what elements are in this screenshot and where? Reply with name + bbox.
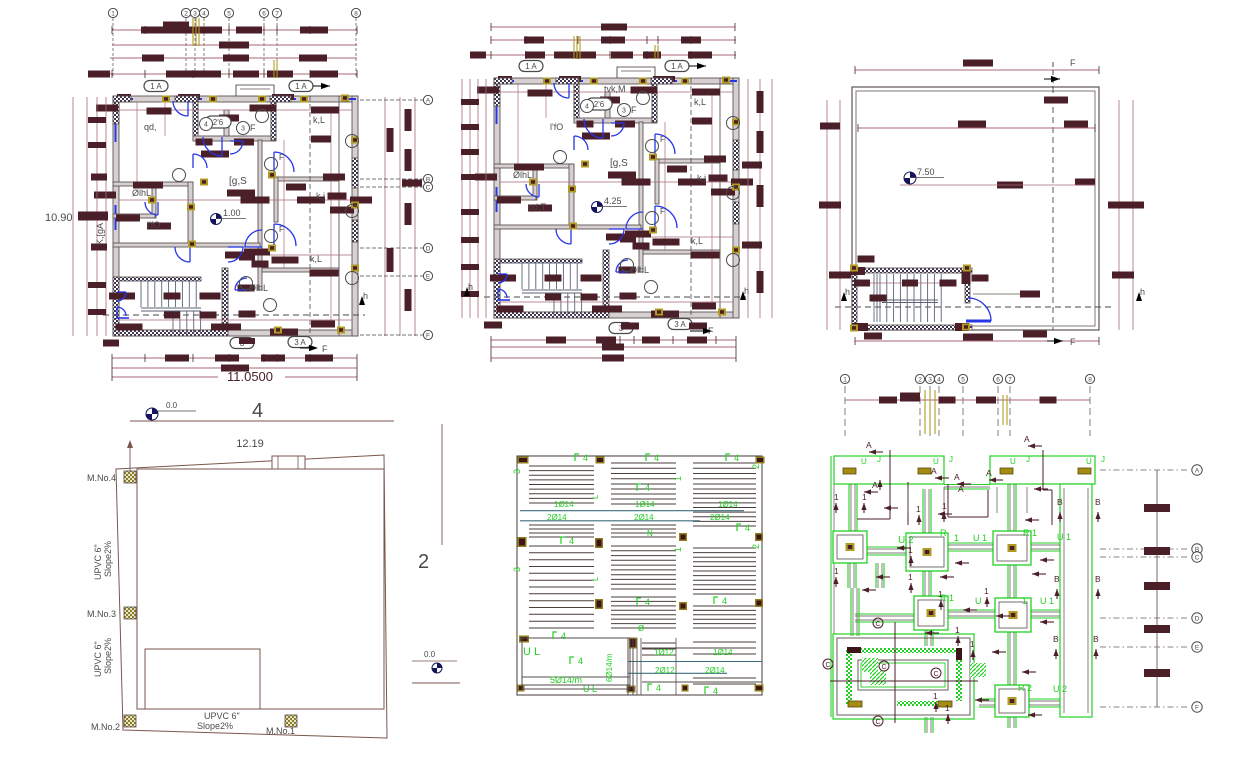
svg-text:k,L: k,L	[691, 236, 703, 246]
svg-text:1: 1	[942, 501, 947, 511]
svg-text:tvk,M: tvk,M	[604, 84, 626, 94]
svg-text:2Ø14: 2Ø14	[705, 666, 725, 675]
svg-text:M.No.1: M.No.1	[266, 726, 295, 736]
ground floor plan (top-left) grid bubbles and dimensions	[108, 8, 117, 17]
svg-text:U 2: U 2	[1053, 684, 1067, 694]
svg-text:4: 4	[654, 453, 659, 463]
svg-text:0.0: 0.0	[424, 650, 436, 659]
svg-text:B: B	[1095, 574, 1101, 584]
svg-text:U: U	[933, 457, 939, 466]
svg-text:3: 3	[512, 567, 522, 572]
svg-text:2: 2	[751, 464, 761, 469]
svg-text:8: 8	[1088, 376, 1092, 383]
svg-text:k,j: k,j	[697, 173, 706, 183]
svg-text:F: F	[279, 153, 284, 162]
svg-text:1: 1	[673, 547, 683, 552]
svg-text:4.25: 4.25	[604, 196, 622, 206]
svg-text:L: L	[591, 494, 600, 499]
svg-text:3 A: 3 A	[294, 338, 306, 347]
svg-text:M.No.4: M.No.4	[87, 473, 116, 483]
svg-text:UPVC 6": UPVC 6"	[93, 641, 103, 677]
svg-text:5: 5	[227, 10, 231, 17]
roof plan (top-right)	[852, 87, 1099, 330]
svg-text:1Ø14: 1Ø14	[713, 648, 733, 657]
svg-text:A: A	[954, 472, 960, 482]
svg-text:6Ø14/m: 6Ø14/m	[605, 653, 614, 682]
svg-text:1.00: 1.00	[223, 208, 241, 218]
svg-text:7: 7	[1008, 376, 1012, 383]
svg-text:A: A	[872, 480, 878, 490]
svg-text:0.0: 0.0	[166, 401, 178, 410]
svg-text:K,[gA: K,[gA	[95, 223, 105, 245]
svg-text:1: 1	[945, 703, 950, 713]
svg-text:5Ø14/m: 5Ø14/m	[550, 675, 582, 685]
svg-text:C: C	[426, 184, 431, 191]
svg-text:2: 2	[918, 376, 922, 383]
svg-text:2'6: 2'6	[213, 118, 224, 127]
svg-text:4: 4	[656, 683, 661, 693]
svg-text:1: 1	[955, 625, 960, 635]
svg-text:1: 1	[938, 589, 943, 599]
svg-text:4: 4	[645, 483, 650, 493]
svg-text:R 1: R 1	[1023, 528, 1037, 538]
svg-text:h: h	[744, 286, 749, 296]
svg-text:4: 4	[585, 104, 589, 111]
svg-text:B: B	[1057, 497, 1063, 507]
svg-text:4: 4	[583, 453, 588, 463]
svg-text:B: B	[1053, 634, 1059, 644]
svg-text:qd,: qd,	[144, 122, 157, 132]
svg-text:1: 1	[933, 691, 938, 701]
svg-text:4: 4	[713, 686, 718, 696]
svg-text:h: h	[845, 287, 850, 297]
svg-text:F: F	[426, 332, 430, 339]
svg-text:A: A	[1195, 467, 1200, 474]
svg-text:3: 3	[512, 469, 522, 474]
foundation layout plan (bottom-right)	[840, 374, 849, 383]
svg-text:C: C	[876, 719, 881, 726]
svg-text:Slope2%: Slope2%	[197, 721, 233, 731]
svg-text:UPVC 6": UPVC 6"	[93, 544, 103, 580]
svg-text:2Ø12: 2Ø12	[655, 666, 675, 675]
svg-text:F: F	[631, 105, 637, 115]
svg-text:6: 6	[996, 376, 1000, 383]
svg-text:Slope2%: Slope2%	[103, 638, 113, 674]
svg-text:N: N	[647, 529, 653, 538]
slab reinforcement plan (bottom-middle)	[517, 456, 762, 695]
svg-text:1: 1	[834, 566, 839, 576]
svg-text:4: 4	[645, 597, 650, 607]
svg-text:E: E	[426, 273, 431, 280]
svg-text:Ø: Ø	[638, 624, 644, 633]
svg-text:1: 1	[1022, 596, 1027, 606]
svg-text:h: h	[468, 282, 473, 292]
svg-text:A: A	[958, 484, 964, 494]
svg-text:1: 1	[673, 476, 683, 481]
svg-text:D: D	[1195, 615, 1200, 622]
svg-text:k,L: k,L	[313, 115, 325, 125]
svg-text:1: 1	[954, 533, 959, 543]
svg-text:k,L: k,L	[310, 254, 322, 264]
svg-text:1: 1	[908, 572, 913, 582]
svg-text:A: A	[986, 468, 992, 478]
svg-text:U: U	[1010, 457, 1016, 466]
svg-text:F: F	[660, 135, 665, 144]
svg-text:U 1: U 1	[1040, 596, 1054, 606]
svg-text:k,j: k,j	[316, 191, 325, 201]
svg-text:3 A: 3 A	[674, 320, 686, 329]
svg-text:U 1: U 1	[1057, 532, 1071, 542]
svg-text:7.50: 7.50	[917, 167, 935, 177]
svg-text:k,L: k,L	[694, 97, 706, 107]
svg-text:1: 1	[984, 586, 989, 596]
svg-text:1: 1	[843, 376, 847, 383]
svg-text:A: A	[931, 466, 937, 476]
svg-text:J: J	[1026, 455, 1030, 464]
svg-text:F: F	[1070, 337, 1076, 347]
svg-text:qd,T: qd,T	[528, 202, 547, 212]
svg-text:U: U	[861, 457, 867, 466]
floor plan body at 113,96	[113, 96, 358, 102]
svg-text:3: 3	[241, 126, 245, 133]
svg-text:C: C	[934, 671, 939, 678]
svg-text:1Ø14: 1Ø14	[554, 500, 574, 509]
svg-text:C: C	[1195, 554, 1200, 561]
svg-text:U: U	[1086, 457, 1092, 466]
svg-text:3: 3	[928, 376, 932, 383]
svg-text:ØlhL: ØlhL	[513, 170, 532, 180]
svg-text:J: J	[1101, 455, 1105, 464]
svg-text:UPVC 6": UPVC 6"	[204, 711, 240, 721]
svg-text:4: 4	[204, 122, 208, 129]
svg-text:12.19: 12.19	[236, 438, 264, 450]
svg-text:2Ø14: 2Ø14	[547, 513, 567, 522]
svg-text:ØlhL: ØlhL	[630, 265, 649, 275]
svg-text:1Ø14: 1Ø14	[718, 500, 738, 509]
svg-text:4: 4	[252, 400, 263, 422]
svg-text:A: A	[866, 440, 872, 450]
floor plan body at 494,78	[494, 78, 739, 84]
svg-text:h: h	[1140, 287, 1145, 297]
svg-text:3: 3	[193, 10, 197, 17]
svg-text:C: C	[882, 664, 887, 671]
first floor plan (top-middle) dimensions	[491, 26, 735, 28]
svg-text:4: 4	[202, 10, 206, 17]
svg-text:U L: U L	[583, 684, 597, 694]
svg-text:2: 2	[751, 544, 761, 549]
svg-text:2Ø14: 2Ø14	[634, 513, 654, 522]
svg-text:U 1: U 1	[973, 533, 987, 543]
svg-text:M.No.3: M.No.3	[87, 609, 116, 619]
svg-text:1: 1	[111, 10, 115, 17]
svg-text:U L: U L	[523, 646, 540, 658]
svg-text:ØlhL: ØlhL	[132, 188, 151, 198]
svg-text:1Ø14: 1Ø14	[635, 500, 655, 509]
svg-text:F: F	[660, 207, 665, 216]
svg-text:M.No.2: M.No.2	[91, 722, 120, 732]
svg-text:U: U	[975, 596, 982, 606]
svg-text:l'fO: l'fO	[550, 122, 563, 132]
svg-text:3: 3	[622, 108, 626, 115]
svg-text:11.0500: 11.0500	[227, 369, 273, 384]
svg-text:E: E	[1195, 644, 1200, 651]
svg-text:2: 2	[418, 551, 429, 573]
svg-text:A: A	[1024, 434, 1030, 444]
svg-text:J: J	[877, 455, 881, 464]
svg-text:R: R	[940, 528, 947, 538]
svg-text:1 A: 1 A	[525, 62, 537, 71]
svg-text:5: 5	[961, 376, 965, 383]
svg-text:B: B	[1095, 497, 1101, 507]
svg-text:ØlhL: ØlhL	[249, 283, 268, 293]
svg-text:1: 1	[862, 492, 867, 502]
svg-text:10.90: 10.90	[45, 212, 73, 224]
svg-text:F: F	[250, 123, 256, 133]
svg-text:7: 7	[275, 10, 279, 17]
svg-text:A: A	[426, 97, 431, 104]
svg-text:[g,S: [g,S	[610, 158, 628, 169]
svg-text:Slope2%: Slope2%	[103, 541, 113, 577]
svg-text:4: 4	[578, 656, 583, 666]
svg-text:J: J	[949, 455, 953, 464]
svg-text:4: 4	[734, 453, 739, 463]
svg-text:8: 8	[354, 10, 358, 17]
svg-text:4: 4	[722, 596, 727, 606]
svg-text:B: B	[1054, 574, 1060, 584]
svg-text:l'fO: l'fO	[147, 220, 160, 230]
svg-text:1Ø12: 1Ø12	[654, 648, 674, 657]
svg-text:2: 2	[184, 10, 188, 17]
svg-text:2'6: 2'6	[594, 100, 605, 109]
svg-text:1: 1	[834, 492, 839, 502]
svg-text:1 A: 1 A	[150, 82, 162, 91]
svg-text:1 A: 1 A	[295, 82, 307, 91]
svg-text:F: F	[1070, 58, 1076, 68]
svg-text:B: B	[1093, 634, 1099, 644]
svg-text:F: F	[322, 344, 328, 354]
svg-text:1 A: 1 A	[671, 62, 683, 71]
svg-text:R 2: R 2	[1018, 683, 1032, 693]
svg-text:4: 4	[937, 376, 941, 383]
svg-text:[g,S: [g,S	[229, 176, 247, 187]
svg-text:4: 4	[561, 631, 566, 641]
svg-text:h: h	[363, 291, 368, 301]
svg-text:F: F	[1195, 704, 1199, 711]
svg-text:L: L	[591, 576, 600, 581]
svg-text:4: 4	[569, 536, 574, 546]
svg-text:1: 1	[908, 545, 913, 555]
svg-text:F: F	[279, 225, 284, 234]
svg-text:1: 1	[916, 504, 921, 514]
svg-text:C: C	[826, 662, 831, 669]
svg-text:2Ø14: 2Ø14	[710, 513, 730, 522]
svg-text:C: C	[876, 621, 881, 628]
svg-text:6: 6	[262, 10, 266, 17]
svg-text:1: 1	[970, 639, 975, 649]
svg-text:D: D	[426, 245, 431, 252]
svg-text:4: 4	[745, 523, 750, 533]
